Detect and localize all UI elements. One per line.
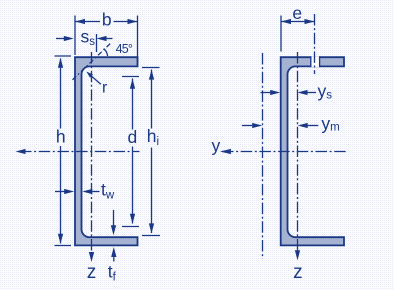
svg-text:h: h xyxy=(56,126,66,146)
svg-text:r: r xyxy=(102,79,108,96)
svg-text:45°: 45° xyxy=(116,42,133,56)
svg-text:z: z xyxy=(293,262,303,283)
svg-text:z: z xyxy=(87,262,97,283)
svg-text:y: y xyxy=(212,136,221,156)
svg-text:d: d xyxy=(128,127,138,147)
svg-text:e: e xyxy=(292,3,302,23)
svg-text:b: b xyxy=(102,10,112,30)
